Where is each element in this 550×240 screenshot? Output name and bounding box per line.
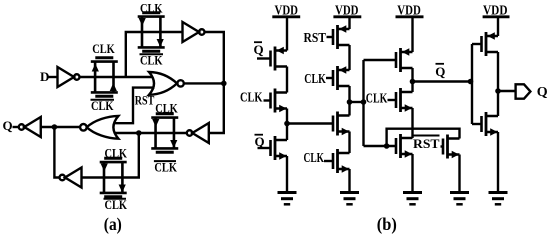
ground 3 (403, 193, 422, 205)
wire M3 to ground (286, 156, 288, 192)
wire M9 to M10 (411, 108, 413, 138)
inverter U4 (right feedback inverter, points left) (187, 123, 209, 143)
transistor M13 NMOS output inverter (482, 112, 499, 136)
wire VDD4 drop (497, 17, 499, 36)
VDD rail 1 (272, 3, 300, 18)
label RST (135, 92, 155, 107)
wire node C down-branch through TG4 to inverter U5 input (82, 133, 139, 178)
wire node B branch to M11 drain (387, 129, 460, 146)
junction node B dot right (361, 99, 367, 105)
label CLKbar below TG2 (140, 53, 164, 68)
wire node A row: inverter U1 out through TG1 to NOR G1 input (80, 76, 155, 78)
transistor M5 PMOS gate CLK (333, 66, 350, 90)
NOR gate G1 (149, 72, 184, 95)
wire gate M9 (388, 99, 397, 101)
junction node C dot (136, 130, 142, 136)
wire NOR G1 output to right vertical (184, 82, 224, 84)
svg-text:CLK: CLK (304, 151, 325, 166)
junction node B lower dot (384, 143, 390, 149)
label RST gate M4 (304, 31, 327, 46)
label (a) (104, 214, 122, 234)
wire M11 to ground (458, 155, 460, 193)
label CLK above TG3 (155, 101, 178, 116)
wire M4 to M5 (348, 45, 350, 70)
inverter U5 (bottom feedback inverter, points left) (60, 168, 82, 188)
wire node B vertical branch (362, 60, 364, 146)
svg-text:CLK: CLK (91, 98, 114, 113)
svg-text:Q: Q (255, 134, 265, 149)
junction node Q dot (52, 124, 58, 130)
wire node A up-branch to TG2 and through TG2 to inverter U2 (126, 32, 183, 77)
transmission gate TG2 (138, 13, 165, 51)
junction output inverter input dot (468, 79, 474, 85)
label CLKbar below TG3 (154, 159, 178, 174)
transistor M4 PMOS gate RST (333, 25, 350, 49)
junction output dot (495, 88, 501, 94)
wire gate M1 (257, 57, 271, 59)
label CLK above TG1 (92, 41, 115, 56)
transmission gate TG3 (151, 114, 178, 152)
svg-text:CLK: CLK (155, 101, 178, 116)
svg-text:CLK: CLK (366, 92, 388, 107)
ground 2 (340, 193, 359, 205)
wire VDD3 drop (411, 17, 413, 52)
label Qbar gate M3 (255, 134, 265, 149)
wire RST net between G1 and G2 inputs (115, 88, 155, 124)
transistor M2 NMOS gate CLK (271, 89, 288, 113)
label CLKbar below TG1 (91, 98, 115, 113)
svg-text:CLK: CLK (154, 159, 177, 174)
transistor M10 NMOS gate node B (396, 134, 413, 158)
wire M10 to ground (411, 154, 413, 192)
wire node C row through TG3 to inverter U4 bubble (115, 132, 187, 134)
label CLK gate M9 (366, 92, 388, 107)
svg-text:CLK: CLK (240, 90, 263, 105)
transistor M12 PMOS output inverter (482, 32, 499, 56)
wire M5 down to node B and M6 (348, 86, 350, 116)
label Qbar node (435, 64, 445, 79)
inverter U3 (Q output inverter, points left) (19, 117, 41, 137)
transistor M9 NMOS gate CLK (396, 88, 413, 112)
wire U3 output to Q label (13, 126, 19, 128)
label CLK gate M5 (304, 72, 326, 87)
wire node Q row G2 output to inverter U3 (41, 126, 80, 128)
inverter U1 (D input inverter) (58, 67, 80, 87)
transistor M11 NMOS gate RSTbar (443, 135, 460, 159)
svg-text:CLK: CLK (92, 41, 115, 56)
svg-text:Q: Q (435, 64, 445, 79)
wire U5 output up to node Q row (54, 127, 59, 178)
svg-text:CLK: CLK (140, 1, 163, 16)
svg-text:CLK: CLK (140, 53, 163, 68)
inverter U2 (top feedback inverter) (183, 22, 205, 42)
wire node B horizontal (350, 101, 364, 103)
ground 5 (489, 193, 508, 205)
label CLKbar below TG4 (104, 197, 128, 212)
node D input label (40, 69, 49, 84)
transmission gate TG1 (91, 58, 118, 96)
wire M13 to ground (497, 132, 499, 192)
wire M8 to M9 node Qbar (411, 68, 413, 92)
transistor M3 NMOS gate Qbar (271, 136, 288, 160)
transistor M8 PMOS gate node B (396, 48, 413, 72)
svg-text:Q: Q (537, 85, 548, 100)
svg-text:(a): (a) (104, 214, 122, 234)
VDD rail 2 (333, 3, 361, 18)
VDD rail 3 (396, 3, 424, 18)
label CLK gate M7 (304, 151, 325, 166)
junction node B dot (221, 81, 227, 87)
wire output inverter gate vertical (471, 44, 473, 124)
transistor M7 NMOS gate CLK (333, 149, 350, 173)
ground 1 (278, 193, 297, 205)
wire gate M7 (324, 160, 333, 162)
VDD rail 4 (483, 3, 510, 18)
svg-text:Q: Q (254, 42, 264, 57)
wire node Qbar to output stage (413, 80, 473, 82)
wire VDD1 drop (286, 17, 288, 51)
label CLK above TG2 (140, 1, 163, 16)
label CLK gate M2 (240, 90, 263, 105)
wire gate stub M12 (472, 43, 482, 45)
wire gate M11 (441, 145, 444, 147)
wire M6 to M7 (348, 132, 350, 154)
wire U2 output down right side to inverter U4 input (205, 32, 224, 133)
label RSTbar gate M11 (413, 136, 440, 152)
svg-text:RST: RST (135, 92, 155, 107)
svg-text:D: D (40, 69, 49, 84)
port Q output flag (516, 84, 531, 98)
label CLK above TG4 (105, 146, 128, 161)
svg-text:CLK: CLK (105, 146, 128, 161)
wire M12 to M13 output (497, 52, 499, 116)
svg-text:CLK: CLK (304, 72, 326, 87)
wire gate M3 (258, 147, 271, 149)
label (b) (377, 214, 397, 234)
wire gate M5 (326, 77, 333, 79)
wire gate M2 (264, 99, 271, 101)
svg-text:RST: RST (413, 136, 440, 151)
wire M2 to M3 node A (286, 109, 288, 141)
label Q output (3, 118, 13, 133)
svg-text:(b): (b) (377, 214, 397, 234)
wire node B to M8 gate (364, 59, 397, 61)
wire VDD2 drop (348, 17, 350, 29)
svg-text:RST: RST (304, 31, 327, 46)
wire node A to M6 gate (287, 122, 333, 124)
wire node B to M10 gate (364, 145, 397, 147)
junction node B dot left (347, 99, 353, 105)
wire output to port (498, 90, 516, 92)
junction node A dot (284, 121, 290, 127)
wire M1 to M2 (286, 67, 288, 93)
junction node Qbar dot (410, 79, 416, 85)
transmission gate TG4 (100, 158, 127, 196)
wire gate stub M13 (472, 123, 482, 125)
label Qbar gate M1 (254, 42, 264, 57)
svg-text:CLK: CLK (105, 197, 128, 212)
transistor M6 NMOS gate node A (333, 112, 350, 136)
NOR gate G2 (mirrored) (80, 116, 118, 139)
svg-text:Q: Q (3, 118, 13, 133)
wire gate M4 (327, 36, 334, 38)
ground 4 (450, 193, 469, 205)
label Q output (537, 85, 548, 100)
wire M7 to ground (348, 169, 350, 192)
wire D to inverter U1 (49, 76, 58, 78)
transistor M1 PMOS gate Qbar (271, 47, 288, 71)
